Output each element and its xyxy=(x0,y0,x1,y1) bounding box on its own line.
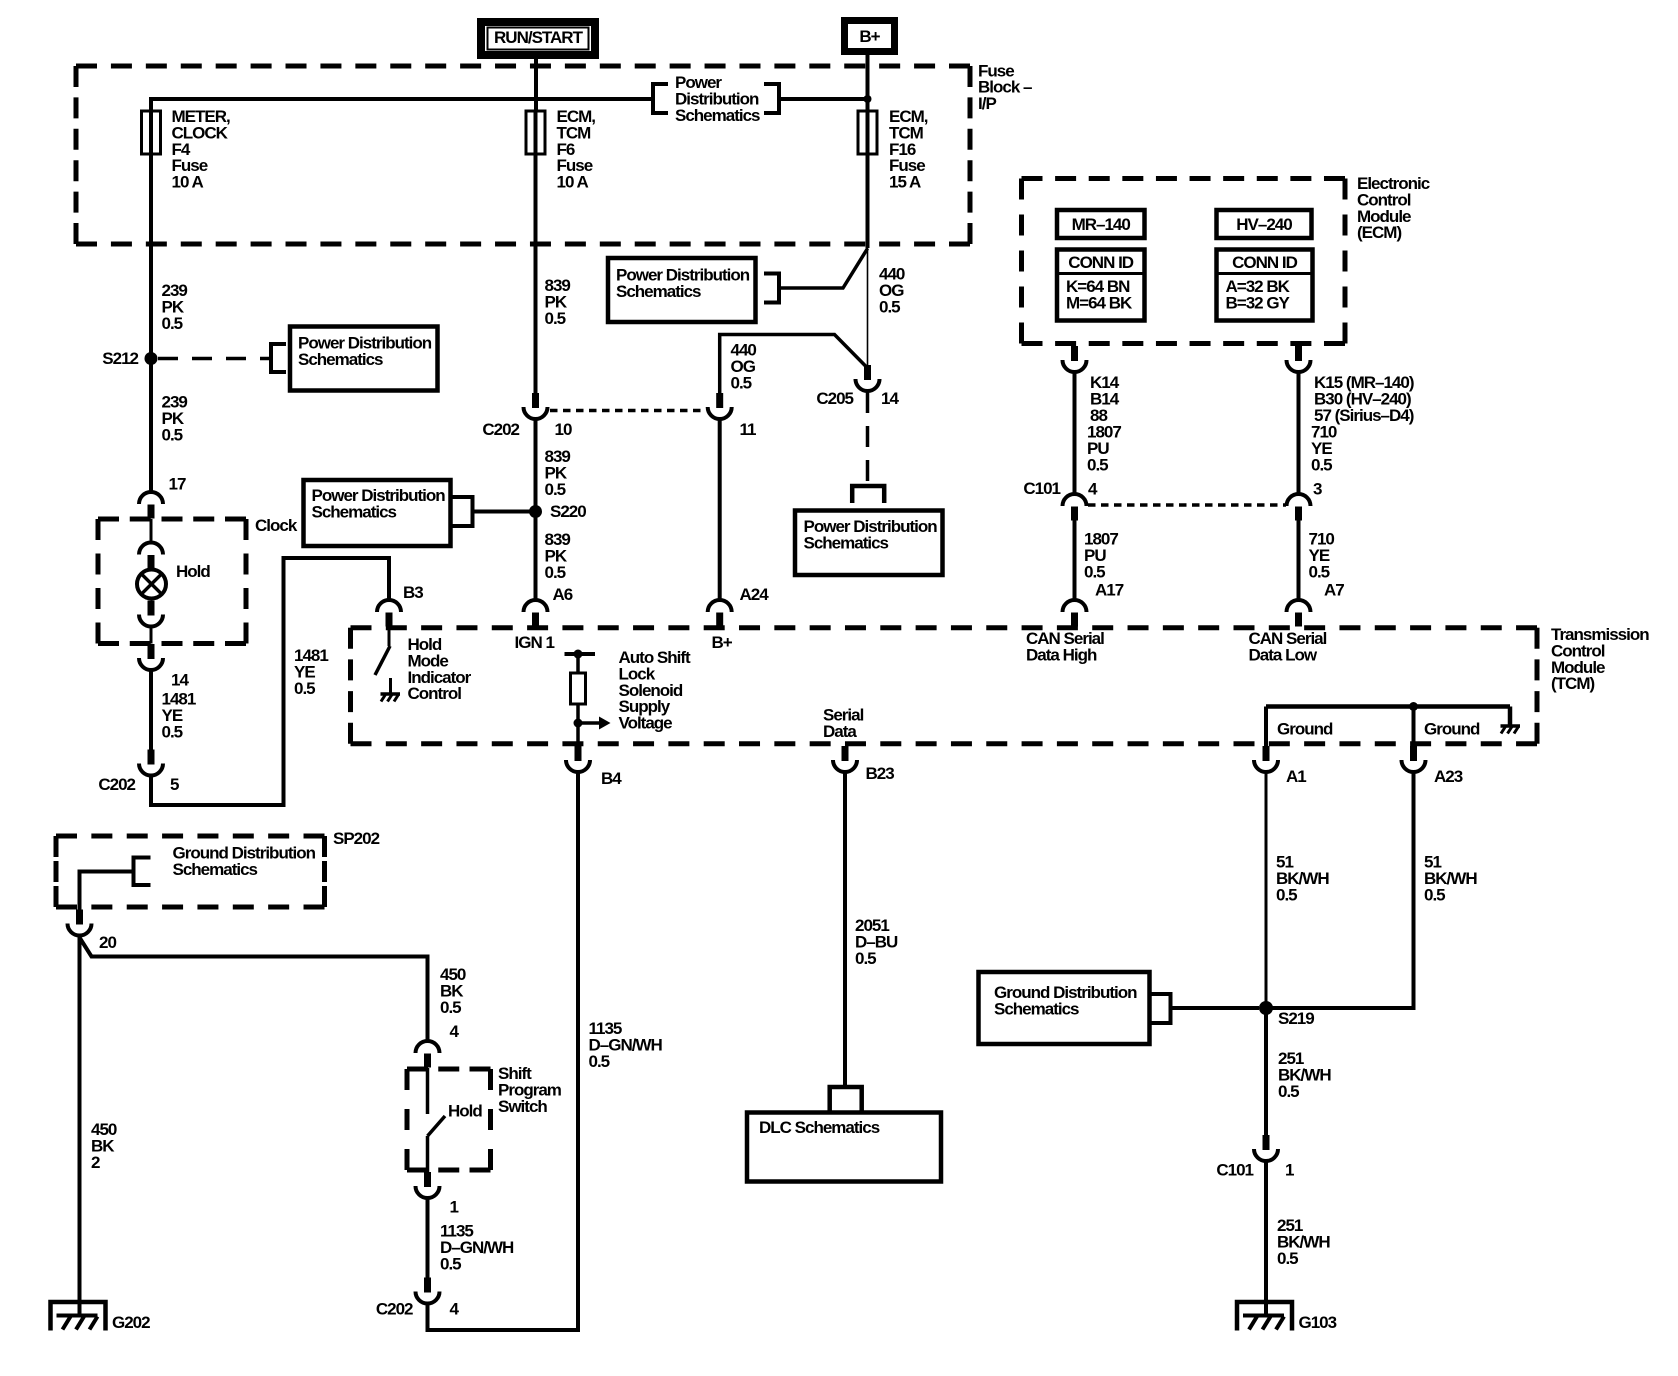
svg-text:14: 14 xyxy=(171,671,189,690)
svg-text:MR–140: MR–140 xyxy=(1072,215,1131,234)
wire switch lower contact xyxy=(426,1136,430,1172)
clock lamp lower terminal xyxy=(139,601,163,627)
svg-text:RUN/START: RUN/START xyxy=(494,28,584,47)
ground G103 xyxy=(1237,1302,1292,1331)
node top bus junction at B+ xyxy=(864,95,872,103)
svg-text:20: 20 xyxy=(99,933,116,952)
svg-text:0.5: 0.5 xyxy=(1277,1249,1298,1268)
TCM dashed box xyxy=(351,628,1538,744)
shift program switch dashed box xyxy=(407,1069,491,1170)
connector line C202 dotted xyxy=(550,409,706,413)
wire A23 inside TCM xyxy=(1412,707,1416,747)
svg-text:0.5: 0.5 xyxy=(589,1052,610,1071)
svg-text:C202: C202 xyxy=(98,775,135,794)
box power distribution schematics (C205) xyxy=(795,511,943,576)
svg-text:10: 10 xyxy=(555,420,572,439)
svg-text:0.5: 0.5 xyxy=(1424,885,1445,904)
wire RUN/START feed xyxy=(534,59,538,111)
wire 51 BK/WH (A23) xyxy=(1272,772,1414,1008)
svg-text:S212: S212 xyxy=(102,349,138,368)
svg-text:Schematics: Schematics xyxy=(298,350,383,369)
connector pin A24 (TCM) xyxy=(708,600,732,627)
svg-text:0.5: 0.5 xyxy=(162,722,183,741)
wire 440 OG branch xyxy=(720,335,868,394)
wire 450 BK 2 to G202 xyxy=(78,936,82,1316)
svg-text:0.5: 0.5 xyxy=(162,314,183,333)
svg-text:S220: S220 xyxy=(550,502,586,521)
wire SP202 to pin 20 xyxy=(80,872,134,910)
connector C101 pin 3 xyxy=(1287,494,1311,521)
connector pin B4 (TCM) xyxy=(566,746,590,772)
connector pin 14 (clock) xyxy=(139,644,163,670)
svg-text:0.5: 0.5 xyxy=(1311,455,1332,474)
svg-text:Schematics: Schematics xyxy=(173,860,258,879)
svg-text:C205: C205 xyxy=(816,389,853,408)
wire 710 YE upper xyxy=(1297,372,1301,494)
wire to bottom corner xyxy=(426,1304,430,1333)
interrupt bracket left (power distribution) xyxy=(653,82,668,115)
ECM dashed box xyxy=(1022,179,1346,344)
svg-text:Schematics: Schematics xyxy=(804,533,889,552)
connector pin B23 (TCM) xyxy=(833,746,857,772)
wire inside clock upper xyxy=(150,519,153,543)
box CONN ID (MR-140) xyxy=(1057,250,1145,321)
svg-text:1: 1 xyxy=(450,1198,459,1217)
svg-text:0.5: 0.5 xyxy=(1278,1082,1299,1101)
svg-text:CONN ID: CONN ID xyxy=(1068,253,1134,272)
box power distribution schematics (S212) xyxy=(290,327,438,391)
svg-text:CONN ID: CONN ID xyxy=(1232,253,1298,272)
connector C202 pin 5 xyxy=(139,750,163,776)
svg-text:11: 11 xyxy=(740,420,757,439)
svg-text:(TCM): (TCM) xyxy=(1551,674,1594,693)
box HV-240 xyxy=(1217,210,1312,238)
svg-text:B3: B3 xyxy=(403,583,423,602)
svg-text:0.5: 0.5 xyxy=(1276,885,1297,904)
connector C202 pin 11 xyxy=(708,393,732,419)
wire hold mode switch lower xyxy=(389,678,392,694)
wire 440 OG to A24 xyxy=(718,419,722,600)
interrupt bracket at S219 xyxy=(1150,992,1171,1025)
box power distribution schematics (440 OG) xyxy=(608,258,756,322)
wire A1 inside TCM xyxy=(1264,707,1268,747)
svg-text:B+: B+ xyxy=(712,633,733,652)
svg-text:IGN 1: IGN 1 xyxy=(515,633,555,652)
svg-text:DLC Schematics: DLC Schematics xyxy=(759,1118,880,1137)
fuse F6 ECM TCM 10A xyxy=(526,111,545,154)
svg-text:C202: C202 xyxy=(376,1300,413,1319)
wire 839 PK from F6 xyxy=(534,154,538,393)
svg-text:Hold: Hold xyxy=(176,562,210,581)
svg-text:A23: A23 xyxy=(1434,767,1463,786)
wire 1807 PU lower xyxy=(1073,521,1077,600)
connector C202 pin 10 xyxy=(524,393,548,419)
wire 1807 PU upper xyxy=(1073,372,1077,494)
wire B+ feed xyxy=(866,55,870,111)
svg-text:Schematics: Schematics xyxy=(675,106,760,125)
wire bracket to S219 xyxy=(1171,1006,1260,1010)
fuse block I/P dashed box xyxy=(76,66,970,244)
wire inside clock lower xyxy=(150,627,153,644)
interrupt bracket (440 OG) xyxy=(764,272,779,305)
svg-text:Data Low: Data Low xyxy=(1249,645,1318,664)
wire 251 BK/WH upper xyxy=(1264,1008,1268,1135)
connector C205 pin 14 xyxy=(856,365,880,391)
box power distribution schematics (S220) xyxy=(304,480,451,546)
wire TCM internal ground bus xyxy=(1266,704,1510,709)
svg-text:Schematics: Schematics xyxy=(616,282,701,301)
wire 1481 YE routing to B3 xyxy=(151,558,389,805)
connector pin A23 (TCM) xyxy=(1402,746,1426,772)
connector pin A17 (TCM) xyxy=(1063,600,1087,627)
connector switch pin 1 xyxy=(416,1172,440,1198)
svg-text:0.5: 0.5 xyxy=(855,949,876,968)
clock lamp upper terminal xyxy=(139,543,163,570)
interrupt bracket at S220 xyxy=(451,495,473,528)
fuse F4 METER CLOCK 10A xyxy=(142,111,161,154)
svg-text:Switch: Switch xyxy=(498,1097,547,1116)
wire 1135 D-GN/WH vertical xyxy=(428,772,578,1330)
switch blade shift program (Hold) xyxy=(428,1116,446,1136)
interrupt cap bracket (DLC) xyxy=(830,1087,862,1112)
svg-text:2: 2 xyxy=(91,1153,100,1172)
svg-text:10 A: 10 A xyxy=(557,173,589,192)
svg-text:B+: B+ xyxy=(859,27,880,46)
interrupt bracket at S212 xyxy=(271,342,286,374)
wire 51 BK/WH (A1) xyxy=(1265,772,1268,1008)
svg-text:B=32 GY: B=32 GY xyxy=(1226,294,1291,313)
svg-text:Voltage: Voltage xyxy=(619,714,673,733)
svg-text:Data: Data xyxy=(823,722,857,741)
divider CONN ID (MR-140) xyxy=(1059,272,1143,275)
svg-text:I/P: I/P xyxy=(978,94,996,113)
svg-text:Schematics: Schematics xyxy=(312,502,397,521)
svg-text:A6: A6 xyxy=(553,585,573,604)
splice S219 xyxy=(1259,1001,1273,1015)
connector C101 pin 4 xyxy=(1063,494,1087,521)
svg-text:0.5: 0.5 xyxy=(731,373,752,392)
wire 2051 D-BU xyxy=(843,772,847,1087)
svg-text:10 A: 10 A xyxy=(172,173,204,192)
svg-text:17: 17 xyxy=(169,475,186,494)
svg-text:0.5: 0.5 xyxy=(1087,455,1108,474)
svg-text:0.5: 0.5 xyxy=(545,563,566,582)
wire bracket to S220 xyxy=(473,510,531,514)
SP202 dashed box xyxy=(56,836,325,907)
svg-text:Data High: Data High xyxy=(1026,645,1097,664)
svg-text:A24: A24 xyxy=(740,585,770,604)
svg-text:Control: Control xyxy=(408,684,462,703)
power feed tag RUN/START xyxy=(481,22,595,55)
svg-text:0.5: 0.5 xyxy=(440,1254,461,1273)
svg-text:Schematics: Schematics xyxy=(994,999,1079,1018)
wire top bus right segment xyxy=(779,97,868,101)
wire 251 BK/WH lower xyxy=(1264,1161,1268,1315)
wire 710 YE lower xyxy=(1297,521,1301,600)
svg-text:Ground: Ground xyxy=(1277,720,1333,739)
connector pin 17 (clock) xyxy=(139,492,163,519)
svg-text:B23: B23 xyxy=(866,764,895,783)
connector pin A7 (TCM) xyxy=(1287,600,1311,627)
power feed tag B+ xyxy=(845,21,895,52)
svg-text:Clock: Clock xyxy=(255,516,298,535)
svg-text:A17: A17 xyxy=(1095,581,1124,600)
svg-text:G202: G202 xyxy=(112,1313,150,1332)
interrupt cap bracket (C205) xyxy=(852,486,884,503)
svg-text:C202: C202 xyxy=(482,420,519,439)
wire 440 OG to interrupt xyxy=(781,249,868,289)
node ground bus junction xyxy=(1409,702,1418,711)
svg-text:15 A: 15 A xyxy=(889,173,921,192)
box DLC schematics xyxy=(747,1113,941,1182)
wire top bus left segment xyxy=(151,99,653,111)
svg-text:Hold: Hold xyxy=(448,1102,482,1121)
connector switch pin 4 xyxy=(416,1041,440,1068)
svg-text:5: 5 xyxy=(170,775,179,794)
wire switch upper contact xyxy=(426,1068,430,1114)
ground chassis (TCM internal) xyxy=(1501,726,1521,734)
svg-text:C101: C101 xyxy=(1216,1161,1253,1180)
svg-text:0.5: 0.5 xyxy=(545,309,566,328)
solenoid auto shift lock supply xyxy=(565,650,611,746)
svg-text:A1: A1 xyxy=(1286,767,1306,786)
svg-text:0.5: 0.5 xyxy=(440,998,461,1017)
svg-text:0.5: 0.5 xyxy=(294,679,315,698)
box MR-140 xyxy=(1057,210,1145,238)
ground chassis (hold mode) xyxy=(381,694,401,702)
fuse F16 ECM TCM 15A xyxy=(858,111,877,154)
wire 839 PK to A6 xyxy=(534,419,538,600)
connector pin B3 (TCM) xyxy=(377,600,401,627)
wire dashed below C205 xyxy=(866,392,870,486)
box CONN ID (HV-240) xyxy=(1217,250,1313,321)
svg-text:0.5: 0.5 xyxy=(545,480,566,499)
svg-text:14: 14 xyxy=(881,389,899,408)
svg-text:3: 3 xyxy=(1313,480,1322,499)
divider CONN ID (HV-240) xyxy=(1219,272,1311,275)
svg-text:C101: C101 xyxy=(1023,479,1060,498)
interrupt bracket SP202 xyxy=(134,856,151,888)
svg-text:M=64 BK: M=64 BK xyxy=(1066,294,1133,313)
indicator lamp Hold (clock) xyxy=(137,570,166,599)
wire ground bus stub xyxy=(1508,707,1513,726)
wire 440 OG thin vertical xyxy=(867,248,869,366)
svg-text:HV–240: HV–240 xyxy=(1236,215,1292,234)
clock dashed box xyxy=(98,519,246,644)
wire dashed branch from S212 xyxy=(158,357,269,361)
svg-text:G103: G103 xyxy=(1299,1313,1337,1332)
svg-text:0.5: 0.5 xyxy=(1084,562,1105,581)
svg-text:1: 1 xyxy=(1285,1161,1294,1180)
connector ECM pin K15 xyxy=(1287,346,1311,372)
svg-text:B4: B4 xyxy=(601,769,622,788)
interrupt bracket right (power distribution) xyxy=(764,82,779,115)
ground G202 xyxy=(51,1302,106,1331)
svg-text:0.5: 0.5 xyxy=(162,425,183,444)
svg-text:0.5: 0.5 xyxy=(879,297,900,316)
connector C202 pin 4 xyxy=(416,1278,440,1304)
svg-text:SP202: SP202 xyxy=(333,829,380,848)
wire 1481 YE to C202 xyxy=(149,670,153,750)
svg-text:Ground: Ground xyxy=(1424,720,1480,739)
svg-text:(ECM): (ECM) xyxy=(1357,223,1401,242)
box ground distribution schematics (S219) xyxy=(979,972,1150,1044)
connector C101 pin 1 xyxy=(1254,1135,1278,1161)
connector pin A1 (TCM) xyxy=(1254,746,1278,772)
wire 1135 D-GN/WH from switch xyxy=(426,1198,430,1278)
connector pin 20 (SP202) xyxy=(68,910,92,936)
svg-text:S219: S219 xyxy=(1278,1009,1314,1028)
svg-text:A7: A7 xyxy=(1324,581,1344,600)
splice S212 xyxy=(145,352,158,365)
wire 239 PK from F4 xyxy=(149,154,153,492)
wire 440 OG from F16 xyxy=(866,154,870,248)
splice S220 xyxy=(529,505,542,518)
wire hold mode switch upper xyxy=(388,627,391,646)
connector pin A6 (TCM) xyxy=(524,600,548,627)
svg-text:0.5: 0.5 xyxy=(1309,562,1330,581)
connector ECM pin K14 xyxy=(1063,346,1087,372)
wire 450 BK branch to switch xyxy=(80,938,428,1041)
connector line C101 dotted xyxy=(1088,503,1286,507)
switch blade hold mode indicator xyxy=(375,646,390,675)
